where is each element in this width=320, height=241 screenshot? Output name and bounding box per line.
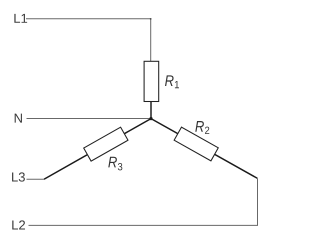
node L1 label (14, 14, 27, 23)
resistor R3 value label (108, 157, 122, 171)
node star junction dot (149, 117, 152, 120)
wire N horizontal to star node (27, 118, 152, 120)
wire L2 horizontal and vertical riser to R2 corner (29, 178, 258, 225)
resistor R2 value label (195, 121, 209, 134)
wire thick lead R1 bottom to star node (150, 101, 152, 118)
wire L3 horizontal to diagonal corner (27, 178, 45, 180)
node N label (15, 114, 22, 123)
node L3 label (12, 172, 25, 181)
wire thick diagonal star node to R2 and L2 riser corner (151, 119, 257, 179)
resistor R2 (174, 127, 218, 161)
wire thick diagonal star node to R3 and L3 corner (44, 119, 151, 180)
node L2 label (12, 220, 25, 229)
node L1 corner junction (150, 18, 152, 20)
resistor R1 value label (165, 75, 179, 88)
wire L1 horizontal and vertical drop to R1 (26, 19, 151, 62)
resistor R1 (144, 61, 159, 101)
resistor R3 (84, 127, 128, 161)
